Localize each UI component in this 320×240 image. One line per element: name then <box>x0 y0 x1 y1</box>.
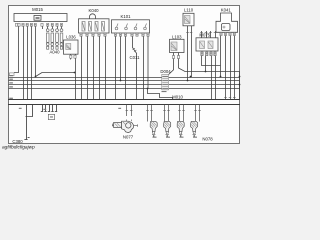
svg-text:agfifbdicfigajwp: agfifbdicfigajwp <box>2 145 35 151</box>
svg-text:M015: M015 <box>32 7 43 12</box>
svg-text:A040: A040 <box>49 49 60 54</box>
svg-text:C380: C380 <box>12 139 23 144</box>
svg-text:N078: N078 <box>202 137 213 142</box>
svg-text:K040: K040 <box>88 8 99 13</box>
svg-text:D004: D004 <box>160 69 171 74</box>
svg-text:L103: L103 <box>172 34 182 39</box>
svg-text:L110: L110 <box>184 8 194 13</box>
svg-text:L036: L036 <box>66 35 76 40</box>
svg-text:K041: K041 <box>221 8 232 13</box>
svg-text:M075: M075 <box>199 33 210 38</box>
svg-text:N077: N077 <box>123 135 134 140</box>
svg-text:M010: M010 <box>172 95 183 100</box>
svg-text:C011: C011 <box>130 55 141 60</box>
svg-text:K101: K101 <box>120 14 131 19</box>
